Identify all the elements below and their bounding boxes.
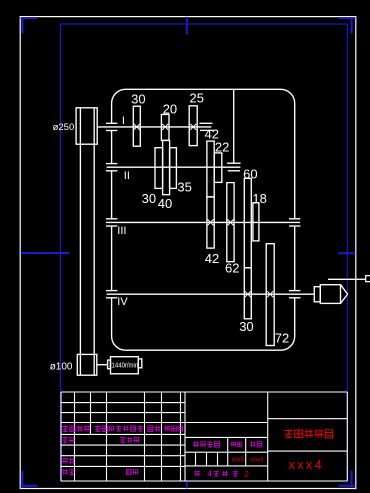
- gear 22 shaft II: [214, 153, 222, 183]
- svg-text:xxxx6: xxxx6: [250, 456, 264, 463]
- bearing shaft I left wall: [106, 122, 117, 124]
- gear 62 shaft III: [227, 183, 234, 262]
- coupling cone: [341, 285, 348, 304]
- blue centering mark top: [186, 17, 188, 35]
- svg-text:62: 62: [225, 261, 239, 276]
- tb text bili: [250, 441, 256, 447]
- bearing shaft III right wall: [289, 218, 300, 220]
- svg-text:25: 25: [190, 90, 204, 105]
- title block grid: [61, 391, 347, 393]
- svg-text:22: 22: [215, 140, 229, 155]
- shaft I: [97, 126, 211, 128]
- shaft II: [107, 166, 241, 168]
- svg-text:60: 60: [243, 167, 257, 182]
- bearing shaft I right end: [200, 122, 213, 124]
- leader line right: [328, 278, 366, 280]
- tb text zhang1: [213, 471, 219, 477]
- bearing shaft IV right wall: [289, 290, 300, 292]
- bearing shaft IV left wall: [106, 290, 117, 292]
- gear 72 shaft IV: [266, 244, 274, 346]
- tb text zhongliang: [231, 442, 236, 446]
- tb text sheji: [62, 437, 68, 443]
- pulley D250 on shaft I: [76, 108, 97, 144]
- blue corner mark bottom-right: [339, 485, 355, 487]
- svg-text:IV: IV: [117, 296, 128, 308]
- tb text biaoji: [62, 426, 68, 432]
- x-mark gear62-III: [228, 219, 234, 225]
- tb text pizhun: [126, 469, 131, 474]
- gear 35 shaft II (triple right): [170, 148, 177, 189]
- bearing shaft II left wall: [106, 163, 117, 165]
- svg-text:18: 18: [252, 191, 266, 206]
- tb text qianming: [148, 426, 153, 432]
- svg-text:II: II: [124, 170, 130, 182]
- motor body: [111, 357, 139, 374]
- gear 20 shaft I: [161, 114, 169, 140]
- tb text zhang2: [233, 471, 239, 477]
- svg-text:1440r/min: 1440r/min: [112, 362, 139, 369]
- svg-text:ø100: ø100: [50, 362, 73, 373]
- gear 25 shaft I: [189, 106, 197, 146]
- coupling hub: [314, 287, 320, 302]
- svg-text:xxx4: xxx4: [289, 457, 325, 472]
- blue centering mark right: [338, 252, 355, 254]
- bearing hanger wall for shaft II right: [233, 89, 235, 163]
- svg-text:42: 42: [205, 251, 219, 266]
- x-mark gear20-I: [162, 124, 168, 130]
- tb text shenhe: [62, 459, 68, 464]
- shaft III: [106, 221, 300, 223]
- coupling body: [320, 285, 340, 304]
- gear 42 shaft III: [207, 197, 214, 248]
- gear 30 shaft I: [133, 106, 140, 146]
- svg-text:I: I: [122, 115, 125, 127]
- svg-text:xxx5: xxx5: [232, 457, 244, 464]
- tb text jieduanbiaoji: [193, 441, 199, 447]
- gear 60 shaft III: [244, 178, 251, 267]
- gear 42 shaft II: [207, 141, 214, 197]
- blue corner mark bottom-left: [21, 485, 38, 487]
- wall gaps at bearings: [110, 124, 113, 130]
- tb text fenqu: [95, 426, 101, 432]
- blue corner mark top-left: [21, 17, 38, 19]
- blue centering mark left: [21, 252, 70, 254]
- svg-text:30: 30: [239, 319, 253, 334]
- x-mark gear30-IV: [245, 291, 251, 297]
- svg-text:35: 35: [177, 180, 191, 195]
- bearing shaft III left wall: [106, 218, 117, 220]
- tb text gongyi: [62, 469, 68, 475]
- tb title chuandongxitongtu: [284, 429, 293, 437]
- svg-text:72: 72: [275, 330, 289, 345]
- gear 30 shaft II (triple left): [155, 148, 163, 189]
- edge box right: [366, 276, 370, 282]
- shaft IV: [107, 293, 315, 295]
- x-mark gear72-IV: [267, 291, 273, 297]
- motor left nub: [108, 360, 111, 369]
- svg-text:2: 2: [244, 469, 249, 479]
- motor right nub: [138, 359, 142, 368]
- x-mark gear30-I: [134, 124, 140, 130]
- belt line left: [79, 108, 81, 375]
- svg-text:ø250: ø250: [53, 122, 75, 133]
- tb text chushu: [77, 426, 83, 432]
- x-mark gear42-III: [208, 219, 214, 225]
- gear 40 shaft II (triple mid): [163, 140, 170, 194]
- tb text nianyueri: [164, 426, 170, 431]
- bearing shaft II right hanger: [227, 162, 241, 164]
- svg-text:40: 40: [158, 196, 172, 211]
- svg-text:4: 4: [207, 469, 212, 479]
- x-mark gear25-I: [190, 124, 196, 130]
- tb text gong: [194, 471, 200, 476]
- svg-text:30: 30: [131, 92, 145, 107]
- gear 18 shaft III: [253, 203, 259, 241]
- svg-text:III: III: [117, 225, 126, 237]
- tb text biaozhunhua: [120, 437, 126, 443]
- motor shaft: [97, 364, 108, 366]
- gearbox housing rounded box: [112, 89, 295, 350]
- belt line right: [93, 108, 95, 375]
- svg-text:20: 20: [163, 101, 177, 116]
- inner blue border frame: [60, 24, 347, 481]
- tb text genggaiwenjianhao: [109, 426, 115, 431]
- blue corner mark top-right: [339, 17, 355, 19]
- tb text di: [222, 471, 228, 477]
- gear 30 shaft IV: [244, 268, 251, 319]
- svg-text:30: 30: [142, 191, 156, 206]
- blue centering mark bottom: [186, 481, 188, 488]
- pulley D100 on motor: [77, 354, 97, 375]
